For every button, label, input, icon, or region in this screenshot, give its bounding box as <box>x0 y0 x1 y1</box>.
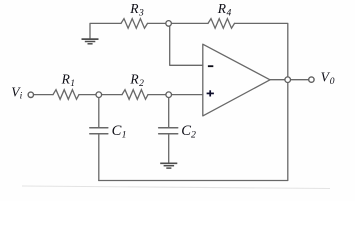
wire node A down and right to op-amp inverting input <box>170 26 203 65</box>
wire node C down to capacitor C2 <box>168 98 170 128</box>
node D (output junction) <box>285 77 291 83</box>
wire node C to op-amp non-inverting input <box>172 94 203 96</box>
wire node A to R4 <box>171 22 208 24</box>
ground top-left (R3) <box>82 39 99 44</box>
svg-text:C: C <box>112 123 122 139</box>
svg-text:4: 4 <box>227 8 232 18</box>
faint scan line at bottom <box>22 186 330 189</box>
resistor R1 <box>53 90 79 100</box>
svg-text:0: 0 <box>330 77 335 87</box>
wire R2 to node C <box>148 94 166 96</box>
wire top-left ground stub to R3 <box>90 23 121 38</box>
svg-text:1: 1 <box>122 129 127 140</box>
resistor R4 <box>208 19 235 29</box>
wire C1 down to bottom rail <box>98 134 100 180</box>
wire node B down to capacitor C1 <box>98 98 100 128</box>
svg-text:2: 2 <box>191 130 196 141</box>
svg-text:R: R <box>61 72 71 87</box>
resistor R3 <box>121 19 148 29</box>
svg-text:R: R <box>129 1 139 16</box>
bottom rail wire from C1 to output column <box>99 82 288 180</box>
svg-text:1: 1 <box>70 79 75 89</box>
wire input terminal to R1 <box>34 94 53 96</box>
node A (R3/R4 junction) <box>166 21 172 27</box>
svg-text:C: C <box>181 123 191 139</box>
op-amp U1 <box>203 44 270 116</box>
output terminal <box>309 77 314 82</box>
wire node D to output terminal <box>290 79 308 81</box>
op-amp minus pin label <box>208 65 213 67</box>
input terminal <box>28 92 33 97</box>
node B (R1/R2/C1 junction) <box>96 92 102 98</box>
wire R1 to node B <box>79 94 96 96</box>
op-amp plus pin label <box>207 90 214 96</box>
resistor R2 <box>122 90 148 100</box>
wire C2 down to ground <box>168 134 170 163</box>
svg-text:R: R <box>217 1 227 16</box>
wire R3 to node A <box>148 22 167 24</box>
node C (R2/C2 junction) <box>166 92 172 98</box>
capacitor C2 <box>159 128 178 134</box>
wire R4 to top-right corner down to output node <box>235 23 288 77</box>
svg-text:R: R <box>129 71 139 86</box>
ground below C2 <box>160 163 177 168</box>
wire node B to R2 <box>102 94 122 96</box>
svg-text:2: 2 <box>139 79 144 89</box>
svg-text:i: i <box>20 92 23 102</box>
svg-text:3: 3 <box>138 9 144 19</box>
capacitor C1 <box>90 128 108 134</box>
wire op-amp output to node D <box>270 79 285 81</box>
